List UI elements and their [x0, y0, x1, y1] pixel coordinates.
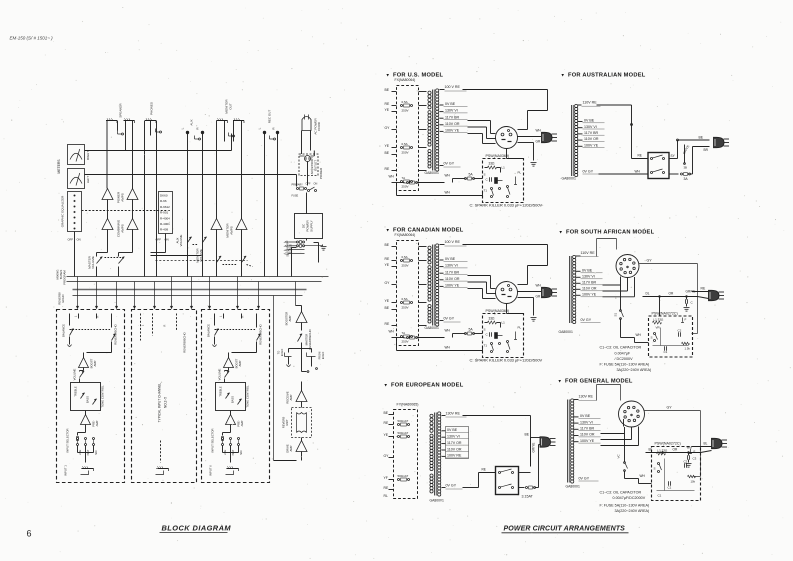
svg-text:INPUT SELECTOR: INPUT SELECTOR	[66, 428, 70, 452]
svg-text:GY: GY	[385, 281, 391, 285]
svg-text:PROGRAM: PROGRAM	[63, 270, 67, 285]
svg-text:REC OUT: REC OUT	[268, 110, 272, 124]
svg-text:WH: WH	[445, 346, 451, 350]
svg-text:GY: GY	[384, 454, 390, 458]
svg-text:▼: ▼	[558, 379, 562, 384]
svg-text:TO: TO	[277, 351, 281, 355]
svg-text:POWER: POWER	[319, 167, 323, 179]
svg-text:AMPS: AMPS	[121, 193, 125, 202]
svg-text:100V RE: 100V RE	[447, 454, 462, 458]
svg-text:INPUT SELECTOR: INPUT SELECTOR	[211, 428, 215, 452]
svg-text:GRAPHIC EQUALIZER: GRAPHIC EQUALIZER	[61, 195, 65, 227]
svg-text:BL: BL	[704, 442, 708, 446]
svg-text:RE: RE	[385, 102, 390, 106]
svg-text:ON: ON	[314, 183, 318, 186]
svg-text:TONE CONTROL: TONE CONTROL	[246, 385, 250, 408]
svg-text:250V: 250V	[402, 151, 409, 155]
svg-text:117V BR: 117V BR	[580, 427, 595, 431]
svg-text:UNIT: UNIT	[285, 419, 289, 426]
svg-text:AUX: AUX	[190, 119, 194, 125]
svg-text:130V VI: 130V VI	[580, 420, 593, 424]
svg-text:ECHO: ECHO	[61, 294, 65, 303]
svg-text:WH: WH	[636, 333, 642, 337]
svg-text:CORD: CORD	[317, 121, 321, 131]
svg-text:BE: BE	[385, 306, 390, 310]
svg-text:OFF: OFF	[68, 238, 74, 242]
svg-text:FUSE: FUSE	[292, 195, 299, 198]
svg-text:GR: GR	[536, 140, 541, 144]
svg-text:+B1: +B1	[284, 240, 289, 244]
svg-text:FROM: FROM	[318, 352, 322, 360]
svg-text:REVERB/ECHO: REVERB/ECHO	[259, 323, 263, 344]
svg-text:YE: YE	[385, 299, 390, 303]
svg-text:RIGHT: RIGHT	[86, 151, 90, 161]
svg-text:110V OR: 110V OR	[445, 122, 460, 126]
svg-text:T1: T1	[484, 189, 488, 193]
svg-text:OFF: OFF	[306, 183, 311, 186]
svg-text:0.0047µF: 0.0047µF	[615, 352, 631, 356]
svg-text:S1: S1	[614, 312, 618, 316]
svg-text:250V: 250V	[402, 340, 409, 344]
svg-text:3A(220~240V AREA): 3A(220~240V AREA)	[617, 368, 652, 372]
svg-text:0.5A: 0.5A	[402, 255, 408, 259]
svg-text:+B2: +B2	[284, 244, 289, 248]
svg-text:C1: C1	[668, 486, 672, 490]
svg-text:ECHO: ECHO	[280, 349, 284, 357]
svg-text:110V OR: 110V OR	[447, 447, 462, 451]
svg-text:SPEAKER: SPEAKER	[119, 103, 123, 118]
svg-text:C2: C2	[684, 460, 688, 464]
svg-text:MIC: MIC	[240, 450, 243, 455]
svg-text:S: S	[484, 173, 486, 177]
svg-text:BE: BE	[385, 243, 390, 247]
svg-text:250V: 250V	[402, 306, 409, 310]
svg-text:R: R	[96, 315, 100, 317]
svg-text:▼: ▼	[559, 230, 563, 235]
svg-text:+22V: +22V	[284, 248, 290, 252]
svg-text:RE: RE	[384, 486, 389, 490]
svg-text:PHONES: PHONES	[150, 102, 154, 115]
svg-text:BE: BE	[384, 411, 389, 415]
svg-text:130V VI: 130V VI	[584, 125, 597, 129]
svg-text:R: R	[163, 324, 167, 326]
svg-text:GA80001: GA80001	[559, 330, 573, 334]
svg-text:T1: T1	[484, 344, 488, 348]
svg-text:▼: ▼	[561, 73, 565, 78]
svg-text:0.5A: 0.5A	[402, 142, 408, 146]
svg-text:100V YE: 100V YE	[584, 143, 599, 147]
svg-text:PRIMARY: PRIMARY	[292, 184, 304, 187]
svg-text:7A: 7A	[402, 176, 406, 180]
svg-text:0V GY: 0V GY	[583, 170, 594, 174]
svg-text:0V BE: 0V BE	[582, 269, 593, 273]
svg-text:BASS: BASS	[86, 396, 90, 403]
svg-text:0V GY: 0V GY	[444, 317, 455, 321]
svg-text:C1: C1	[664, 350, 668, 354]
svg-text:500mAT: 500mAT	[398, 419, 409, 423]
svg-text:GA80001: GA80001	[566, 485, 580, 489]
svg-text:LEFT: LEFT	[86, 176, 90, 184]
svg-text:FY(NA60065): FY(NA60065)	[397, 403, 419, 407]
svg-text:110V OR: 110V OR	[580, 433, 595, 437]
svg-text:R-9612: R-9612	[160, 205, 170, 209]
svg-text:/ DC2000V: / DC2000V	[615, 357, 634, 361]
svg-text:WH: WH	[389, 175, 395, 179]
svg-text:PSW(NA0369): PSW(NA0369)	[486, 309, 510, 313]
svg-text:117V OR: 117V OR	[447, 441, 462, 445]
svg-text:WH: WH	[536, 129, 542, 133]
svg-text:AMP: AMP	[289, 445, 293, 451]
svg-text:3.15AT: 3.15AT	[522, 495, 534, 499]
svg-text:FOR GENERAL MODEL: FOR GENERAL MODEL	[565, 379, 633, 385]
svg-text:RE: RE	[384, 421, 389, 425]
svg-text:GY: GY	[647, 259, 653, 263]
svg-text:INPUT 6: INPUT 6	[209, 465, 213, 476]
svg-text:AMP: AMP	[289, 394, 293, 400]
svg-text:250V: 250V	[402, 109, 409, 113]
svg-text:BE: BE	[525, 433, 530, 437]
svg-text:33Ω: 33Ω	[489, 317, 496, 321]
svg-text:YE: YE	[385, 144, 390, 148]
svg-text:BE: BE	[699, 136, 704, 140]
svg-text:33Ω: 33Ω	[489, 162, 496, 166]
svg-text:110V OR: 110V OR	[584, 137, 599, 141]
svg-text:BR: BR	[704, 148, 709, 152]
svg-text:0V GY: 0V GY	[444, 162, 455, 166]
svg-text:C1: C1	[658, 494, 662, 498]
svg-text:1.5k: 1.5k	[685, 347, 691, 351]
svg-text:C: SPARK KILLER 0.033 µF+120Ω: C: SPARK KILLER 0.033 µF+120Ω/500V	[470, 203, 543, 208]
svg-text:▼: ▼	[386, 73, 390, 78]
svg-text:L1 33Ω: L1 33Ω	[654, 318, 665, 322]
svg-text:100V YE: 100V YE	[445, 284, 460, 288]
svg-text:130V RE: 130V RE	[446, 412, 461, 416]
svg-text:YE: YE	[385, 108, 390, 112]
svg-text:0.0047µF/DC2000V: 0.0047µF/DC2000V	[613, 496, 646, 500]
svg-text:RE: RE	[638, 154, 642, 158]
svg-text:WH: WH	[445, 329, 451, 333]
svg-text:3B: 3B	[684, 166, 688, 170]
svg-text:VOLUME: VOLUME	[218, 368, 222, 380]
svg-text:OR: OR	[669, 292, 674, 296]
svg-text:YE: YE	[384, 433, 389, 437]
svg-text:GR: GR	[536, 295, 541, 299]
svg-text:C1~C3: OIL CAPACITOR: C1~C3: OIL CAPACITOR	[600, 346, 642, 350]
svg-text:110V OR: 110V OR	[582, 287, 597, 291]
svg-text:RE: RE	[482, 468, 486, 472]
svg-text:ECHO: ECHO	[321, 352, 325, 360]
svg-text:PL: PL	[518, 326, 522, 330]
svg-text:R-96: R-96	[160, 199, 167, 203]
svg-text:BE: BE	[385, 88, 390, 92]
svg-text:C2: C2	[678, 329, 682, 333]
svg-text:F: FUSE 5A(110~130V AREA): F: FUSE 5A(110~130V AREA)	[600, 504, 650, 508]
svg-text:F: FUSE 5A(110~130V AREA): F: FUSE 5A(110~130V AREA)	[600, 363, 650, 367]
svg-text:BASS: BASS	[231, 396, 235, 403]
svg-text:S: S	[484, 328, 486, 332]
svg-text:PSW(NA0272C): PSW(NA0272C)	[652, 312, 678, 316]
svg-text:AMP: AMP	[240, 420, 244, 426]
svg-text:RE: RE	[385, 257, 390, 261]
svg-text:PSW(NA0369): PSW(NA0369)	[486, 154, 510, 158]
svg-text:R-4004: R-4004	[160, 216, 170, 220]
svg-text:WH: WH	[445, 191, 451, 195]
svg-text:117V BR: 117V BR	[445, 270, 460, 274]
svg-text:F: F	[694, 450, 696, 454]
svg-text:NO.2~5: NO.2~5	[164, 397, 168, 408]
svg-text:10k: 10k	[691, 480, 696, 484]
svg-text:GR/YE: GR/YE	[532, 443, 536, 453]
svg-text:250V: 250V	[402, 185, 409, 189]
svg-text:RE: RE	[385, 167, 390, 171]
svg-text:AMP: AMP	[95, 420, 99, 426]
svg-text:GA80001: GA80001	[425, 171, 439, 175]
svg-text:GA80001: GA80001	[562, 177, 576, 181]
svg-text:WH: WH	[536, 284, 542, 288]
svg-text:5A: 5A	[469, 328, 474, 332]
svg-text:S: S	[654, 467, 656, 471]
svg-text:S: S	[651, 336, 653, 340]
svg-text:AMPS: AMPS	[121, 224, 125, 233]
svg-text:FOR EUROPEAN MODEL: FOR EUROPEAN MODEL	[391, 383, 464, 389]
svg-text:FOR SOUTH AFRICAN MODEL: FOR SOUTH AFRICAN MODEL	[566, 230, 655, 236]
svg-text:R-901: R-901	[160, 211, 169, 215]
svg-text:TYPICAL INPUT CHANNEL: TYPICAL INPUT CHANNEL	[158, 382, 162, 422]
svg-text:SUPPLY: SUPPLY	[310, 220, 314, 232]
svg-text:C1~C3: OIL CAPACITOR: C1~C3: OIL CAPACITOR	[600, 491, 642, 495]
svg-text:0V GY: 0V GY	[446, 484, 457, 488]
svg-text:5A: 5A	[469, 173, 474, 177]
svg-text:EM-150 (S/ # 1501~ ): EM-150 (S/ # 1501~ )	[10, 36, 54, 41]
svg-text:100V YE: 100V YE	[580, 439, 595, 443]
svg-text:ON: ON	[77, 238, 81, 242]
svg-text:RE: RE	[385, 322, 390, 326]
svg-text:WH: WH	[640, 474, 646, 478]
svg-text:L1 33Ω: L1 33Ω	[658, 449, 669, 453]
svg-text:C3: C3	[693, 457, 697, 461]
svg-text:VOLUME: VOLUME	[179, 234, 183, 246]
svg-text:500mAT: 500mAT	[398, 431, 409, 435]
svg-text:YF: YF	[384, 476, 388, 480]
svg-text:R-409: R-409	[160, 228, 169, 232]
svg-text:MIC: MIC	[95, 450, 98, 455]
svg-text:BALANCE: BALANCE	[62, 324, 66, 337]
svg-text:110V RE: 110V RE	[581, 251, 596, 255]
svg-text:0V GY: 0V GY	[579, 477, 590, 481]
svg-text:DL: DL	[646, 292, 650, 296]
svg-text:METERS: METERS	[57, 159, 61, 174]
svg-text:3A: 3A	[684, 177, 689, 181]
svg-text:117V BR: 117V BR	[582, 281, 597, 285]
svg-text:POWER CIRCUIT ARRANGEMENTS: POWER CIRCUIT ARRANGEMENTS	[504, 526, 626, 533]
svg-text:R-4001: R-4001	[160, 222, 170, 226]
svg-text:100V YE: 100V YE	[582, 293, 597, 297]
svg-text:TREBLE: TREBLE	[219, 386, 223, 397]
svg-text:AMP: AMP	[93, 360, 97, 366]
svg-text:AMPS: AMPS	[230, 226, 234, 235]
svg-text:117V BR: 117V BR	[445, 115, 460, 119]
svg-text:3A(220~240V AREA): 3A(220~240V AREA)	[615, 509, 650, 513]
svg-text:130V VI: 130V VI	[582, 275, 595, 279]
svg-text:REVERB/ECHO: REVERB/ECHO	[308, 328, 312, 349]
svg-text:L1: L1	[502, 321, 506, 325]
svg-text:0V BE: 0V BE	[580, 414, 591, 418]
svg-text:REVERB/ECHO: REVERB/ECHO	[183, 331, 187, 352]
svg-text:100 V RE: 100 V RE	[445, 240, 461, 244]
svg-text:130V VI: 130V VI	[447, 435, 460, 439]
svg-text:0V BE: 0V BE	[445, 102, 456, 106]
svg-text:7A: 7A	[402, 331, 406, 335]
svg-text:RE: RE	[701, 287, 706, 291]
svg-text:0.5A: 0.5A	[402, 297, 408, 301]
svg-text:FX(NA80064): FX(NA80064)	[395, 78, 416, 82]
svg-text:GY: GY	[385, 126, 391, 130]
svg-text:130V VI: 130V VI	[445, 264, 458, 268]
svg-text:VOLUME: VOLUME	[73, 368, 77, 380]
svg-text:PRE-: PRE-	[237, 420, 241, 427]
svg-text:117V BR: 117V BR	[584, 131, 599, 135]
svg-text:BALANCE: BALANCE	[207, 324, 211, 337]
svg-text:AMP: AMP	[288, 315, 292, 321]
svg-text:0.5A: 0.5A	[402, 100, 408, 104]
svg-text:L1: L1	[502, 166, 506, 170]
svg-text:INPUT 1: INPUT 1	[64, 465, 68, 476]
svg-text:6: 6	[27, 529, 32, 539]
svg-text:▼: ▼	[384, 383, 388, 388]
svg-text:+12V: +12V	[284, 252, 290, 256]
svg-text:FX(NA80064): FX(NA80064)	[395, 233, 416, 237]
svg-text:REVERB/ECHO: REVERB/ECHO	[114, 323, 118, 344]
svg-text:PRE-: PRE-	[92, 420, 96, 427]
svg-text:C: SPARK KILLER 0.033 µF+120Ω: C: SPARK KILLER 0.033 µF+120Ω/500V	[470, 358, 543, 363]
svg-text:F: F	[685, 318, 687, 322]
svg-text:0V BE: 0V BE	[584, 119, 595, 123]
svg-text:0V BE: 0V BE	[447, 428, 458, 432]
svg-text:WH: WH	[389, 330, 395, 334]
svg-text:0V GY: 0V GY	[581, 318, 592, 322]
svg-text:PSW(NA0272C): PSW(NA0272C)	[655, 442, 681, 446]
svg-text:GA80001: GA80001	[430, 499, 444, 503]
svg-text:110V OR: 110V OR	[445, 277, 460, 281]
svg-text:FOR AUSTRALIAN MODEL: FOR AUSTRALIAN MODEL	[568, 73, 646, 79]
svg-text:WH: WH	[445, 174, 451, 178]
svg-text:130V RE: 130V RE	[579, 395, 594, 399]
svg-text:250V: 250V	[402, 264, 409, 268]
svg-text:GA80001: GA80001	[425, 326, 439, 330]
svg-text:▼: ▼	[386, 228, 390, 233]
svg-text:DK60: DK60	[160, 194, 168, 198]
svg-text:VOLUME: VOLUME	[199, 249, 203, 262]
svg-text:OUT: OUT	[229, 103, 233, 110]
svg-text:100V YE: 100V YE	[445, 129, 460, 133]
svg-text:PL: PL	[518, 171, 522, 175]
svg-text:BLOCK DIAGRAM: BLOCK DIAGRAM	[162, 524, 232, 533]
svg-text:500mAT: 500mAT	[398, 474, 409, 478]
svg-text:YE: YE	[385, 263, 390, 267]
svg-text:110V RE: 110V RE	[583, 101, 598, 105]
svg-text:GY: GY	[667, 406, 673, 410]
svg-text:AMP: AMP	[238, 360, 242, 366]
svg-text:100 V RE: 100 V RE	[445, 85, 461, 89]
svg-text:R: R	[241, 315, 245, 317]
svg-text:TREBLE: TREBLE	[74, 386, 78, 397]
svg-text:VOLUME: VOLUME	[91, 256, 95, 269]
svg-text:TONE CONTROL: TONE CONTROL	[101, 385, 105, 408]
svg-text:WH: WH	[635, 170, 641, 174]
svg-text:0V BE: 0V BE	[445, 257, 456, 261]
svg-text:RL: RL	[384, 494, 388, 498]
svg-text:BE: BE	[385, 151, 390, 155]
